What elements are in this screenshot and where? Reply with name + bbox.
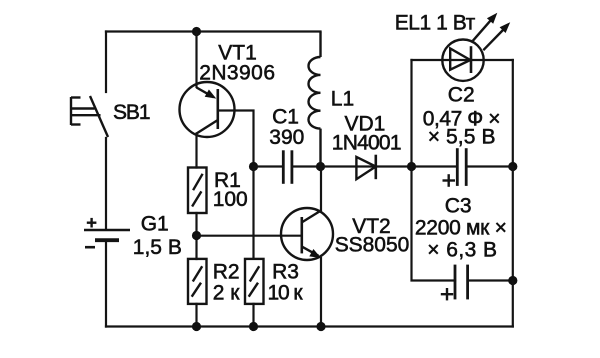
diode VD1 [356, 155, 375, 180]
wire: output node to C2 + plate [412, 165, 458, 167]
svg-text:R2: R2 [213, 261, 240, 284]
svg-text:2200 мк ×: 2200 мк × [415, 217, 507, 240]
switch SB1 (push-button) [71, 96, 108, 137]
transistor VT2 SS8050 (NPN) [281, 208, 333, 260]
svg-text:100: 100 [213, 188, 248, 211]
svg-text:C3: C3 [445, 195, 472, 218]
LED EL1 [442, 13, 510, 81]
wire: C1 right plate to L1/VD1 node [292, 165, 321, 167]
svg-text:1N4001: 1N4001 [332, 132, 402, 155]
wire: output node up to LED EL1 anode [410, 60, 412, 167]
wire: right rail down to ground rail [512, 281, 514, 327]
wire: LED cathode side down to right rail [512, 60, 514, 167]
svg-text:L1: L1 [331, 88, 354, 111]
wire: C1 node down to R3 top [252, 167, 254, 259]
node: R1/R2/VT2-base junction [192, 231, 201, 240]
capacitor C3 (electrolytic) [441, 265, 468, 301]
wire: base node to VT2 base [197, 235, 302, 237]
wire: R3 bottom to ground rail [252, 304, 254, 327]
wire: C3 right plate to right rail [468, 279, 513, 281]
wire: VT2 emitter down to ground rail [320, 258, 322, 327]
svg-text:EL1 1 Вт: EL1 1 Вт [395, 12, 476, 35]
svg-text:2 к: 2 к [213, 282, 241, 305]
wire: C1 node to C1 left plate [254, 165, 284, 167]
inductor L1 [309, 32, 321, 167]
wire: LED branch horizontal [412, 59, 513, 61]
capacitor C1 [283, 150, 292, 184]
node: VD1 cathode / output node [407, 162, 416, 171]
wire: L1/VD1 node to VD1 anode and on to output node [321, 165, 412, 167]
svg-text:R3: R3 [272, 261, 299, 284]
resistor R3 [245, 259, 264, 304]
transistor VT1 2N3906 (PNP) [180, 82, 235, 137]
svg-text:× 5,5 В: × 5,5 В [428, 126, 496, 149]
battery G1 [84, 218, 130, 247]
svg-text:10 к: 10 к [268, 282, 304, 305]
node: L1 / VD1 / VT2 collector junction [316, 162, 325, 171]
node: top rail / VT1 emitter junction [192, 27, 201, 36]
svg-text:C2: C2 [448, 84, 475, 107]
wire: C2 right plate to right rail [466, 165, 513, 167]
node: VT1 base / C1 / R3 junction [249, 162, 258, 171]
node: R3 / ground rail [249, 322, 258, 331]
wire: SB1 bottom contact to battery + [105, 138, 107, 229]
svg-text:1,5 В: 1,5 В [133, 236, 182, 259]
wire: top positive rail [106, 30, 321, 32]
node: VT2 emitter / ground rail [316, 322, 325, 331]
wire: VT1 base right then down to C1 node [218, 111, 254, 167]
resistor R1 [188, 168, 207, 214]
wire: left vertical from top rail to SB1 top contact [105, 32, 107, 93]
wire: bottom ground rail [106, 325, 513, 327]
svg-text:SB1: SB1 [113, 101, 151, 124]
wire: R2 bottom to ground rail [195, 304, 197, 327]
wire: VT2 collector up to L1/VD1 node [320, 167, 322, 211]
wire: VT1 emitter lead [195, 32, 197, 88]
svg-text:× 6,3 В: × 6,3 В [427, 239, 497, 262]
wire: R1 bottom to R2 top through base node [195, 213, 197, 259]
svg-text:390: 390 [269, 126, 304, 149]
resistor R2 [188, 259, 207, 304]
wire: battery - down to ground rail [105, 242, 107, 327]
svg-text:G1: G1 [141, 213, 169, 236]
node: right rail / C3 junction [508, 276, 517, 285]
wire: right rail C2 node down to C3 node [512, 167, 514, 281]
wire: output node down and right to C3 + plate [412, 167, 456, 281]
svg-text:SS8050: SS8050 [335, 234, 410, 257]
capacitor C2 (ionistor) [443, 148, 467, 187]
svg-text:2N3906: 2N3906 [199, 62, 275, 85]
node: R2 / ground rail [192, 322, 201, 331]
node: right rail / C2 junction [508, 162, 517, 171]
wire: VT1 collector down to R1 [195, 134, 197, 168]
